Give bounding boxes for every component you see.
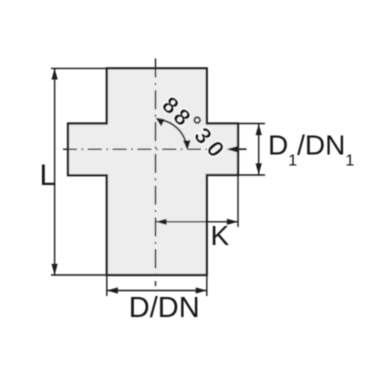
branch axis leader arrowhead (points left) <box>227 146 238 152</box>
angle dimension arc (88°30') <box>157 120 187 149</box>
K left arrowhead <box>156 219 167 225</box>
D/DN left arrowhead <box>107 287 118 293</box>
D1/DN1 dimension line (vertical) <box>258 124 260 175</box>
L dimension line (vertical) <box>54 68 56 275</box>
svg-text:D/DN: D/DN <box>129 292 200 324</box>
svg-text:D1/DN1: D1/DN1 <box>268 130 354 170</box>
angle arc lower arrowhead <box>183 140 191 150</box>
K dimension line (horizontal) <box>156 221 239 223</box>
D/DN right extension line <box>206 275 208 296</box>
angle label 88°30 (rotated digits) <box>157 91 229 162</box>
horizontal center line (dash-dot branch axis) <box>63 148 210 150</box>
L dimension lower arrowhead <box>52 264 58 275</box>
D1/DN1 lower arrowhead <box>256 163 262 174</box>
svg-text:K: K <box>211 220 230 251</box>
L dimension top extension line <box>51 67 107 69</box>
svg-text:L: L <box>40 159 57 192</box>
D/DN left extension line <box>106 275 108 296</box>
D/DN right arrowhead <box>196 287 207 293</box>
L dimension bottom extension line <box>51 274 107 276</box>
angle arc upper arrowhead <box>156 118 165 127</box>
degree symbol of angle label <box>194 117 200 123</box>
D1/DN1 upper arrowhead <box>256 124 262 135</box>
K right arrowhead <box>227 219 238 225</box>
L dimension upper arrowhead <box>52 68 58 79</box>
D1/DN1 bottom extension line <box>238 174 265 176</box>
K extension line (from branch corner down) <box>237 175 239 227</box>
branch axis leader line (right of branch) <box>229 148 247 150</box>
D/DN dimension line (horizontal) <box>107 290 207 292</box>
D1/DN1 top extension line <box>238 123 265 125</box>
vertical center line (dash-dot axis) <box>155 59 157 287</box>
fitting body outline (cross-shaped pipe fitting silhouette) <box>68 68 238 275</box>
